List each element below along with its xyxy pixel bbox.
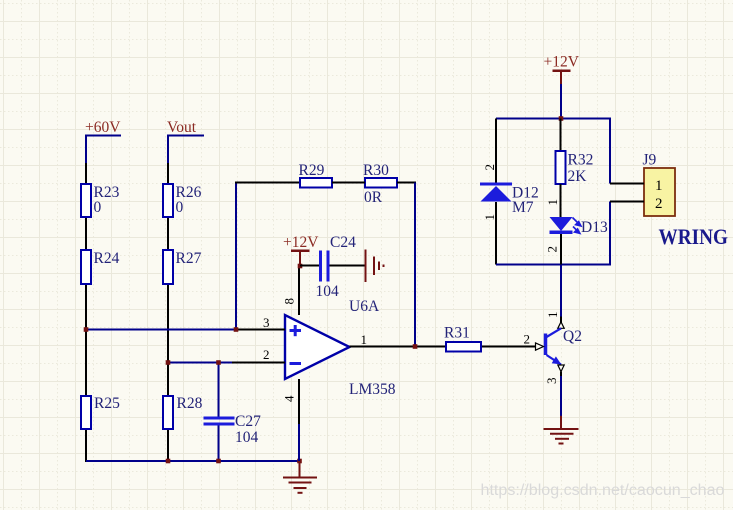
svg-text:https://blog.csdn.net/caocun_c: https://blog.csdn.net/caocun_chao bbox=[481, 482, 725, 499]
svg-text:+12V: +12V bbox=[283, 234, 319, 251]
svg-text:2: 2 bbox=[482, 164, 497, 171]
svg-text:C27: C27 bbox=[235, 413, 261, 430]
svg-text:J9: J9 bbox=[643, 152, 657, 169]
svg-text:LM358: LM358 bbox=[349, 381, 396, 398]
svg-text:1: 1 bbox=[545, 199, 560, 206]
svg-text:R24: R24 bbox=[94, 250, 120, 267]
svg-text:104: 104 bbox=[235, 429, 259, 446]
svg-text:2: 2 bbox=[545, 246, 560, 253]
svg-text:M7: M7 bbox=[512, 199, 534, 216]
svg-text:R25: R25 bbox=[94, 395, 120, 412]
svg-text:Q2: Q2 bbox=[563, 328, 582, 345]
svg-text:U6A: U6A bbox=[349, 298, 380, 315]
svg-text:R31: R31 bbox=[444, 325, 470, 342]
svg-text:1: 1 bbox=[482, 214, 497, 221]
svg-text:4: 4 bbox=[282, 395, 297, 402]
svg-text:R27: R27 bbox=[176, 250, 202, 267]
svg-text:0: 0 bbox=[94, 199, 102, 216]
svg-text:2: 2 bbox=[524, 332, 531, 347]
svg-text:104: 104 bbox=[316, 283, 340, 300]
svg-text:1: 1 bbox=[655, 178, 663, 194]
svg-text:R32: R32 bbox=[568, 152, 594, 169]
svg-text:R30: R30 bbox=[363, 162, 389, 179]
svg-text:3: 3 bbox=[263, 315, 270, 330]
svg-text:WRING: WRING bbox=[659, 224, 729, 249]
svg-text:0: 0 bbox=[176, 199, 184, 216]
svg-text:+12V: +12V bbox=[544, 54, 580, 71]
svg-text:8: 8 bbox=[282, 298, 297, 305]
svg-text:2: 2 bbox=[655, 196, 663, 212]
svg-text:2: 2 bbox=[263, 347, 270, 362]
svg-text:3: 3 bbox=[544, 378, 559, 385]
svg-text:R28: R28 bbox=[177, 395, 203, 412]
svg-text:Vout: Vout bbox=[167, 119, 197, 136]
svg-text:2K: 2K bbox=[568, 168, 588, 185]
svg-text:+60V: +60V bbox=[85, 119, 121, 136]
svg-text:1: 1 bbox=[361, 332, 368, 347]
svg-text:C24: C24 bbox=[330, 234, 356, 251]
svg-text:0R: 0R bbox=[364, 189, 383, 206]
svg-text:1: 1 bbox=[545, 312, 560, 319]
svg-text:R29: R29 bbox=[299, 162, 325, 179]
svg-text:D13: D13 bbox=[581, 219, 608, 236]
